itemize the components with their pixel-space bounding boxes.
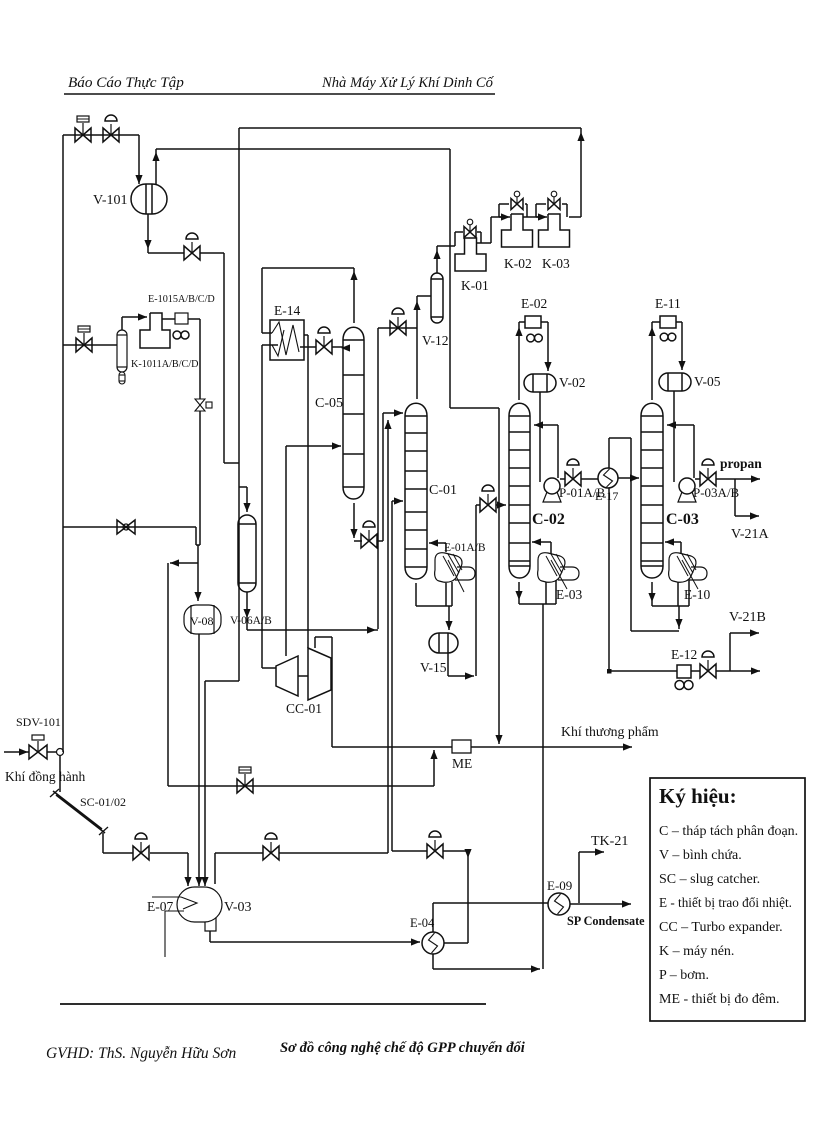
wire C-03 bottoms down to header bbox=[678, 606, 680, 629]
header underline bbox=[64, 93, 495, 95]
wire E-17 shell bottom to E-12 line bbox=[608, 488, 610, 671]
wire valve to C-02 bbox=[496, 504, 506, 506]
svg-text:K-03: K-03 bbox=[542, 256, 570, 271]
wire C-01 overhead branch valve line bbox=[378, 327, 417, 329]
svg-text:V-02: V-02 bbox=[559, 375, 586, 390]
wire V-06 bottoms bbox=[246, 592, 248, 630]
wire CC-01 compressor discharge to C-05 feed bbox=[285, 446, 287, 656]
wire SDV to main vertical bbox=[47, 751, 56, 753]
air cooler E-02 box bbox=[525, 316, 541, 328]
wire C-05 bottoms to riser x383 bbox=[377, 540, 383, 542]
wire inlet top header y135 bbox=[63, 134, 139, 136]
pump P-03A/B bbox=[679, 478, 695, 494]
wire down to slug catcher bbox=[59, 756, 61, 792]
heater E-07 coil in V-03 bbox=[181, 897, 197, 909]
column C-02 bbox=[509, 403, 530, 578]
svg-text:V – bình chứa.: V – bình chứa. bbox=[659, 848, 742, 863]
wire branch down x378 bbox=[377, 328, 379, 629]
wire C-05 overhead bbox=[353, 268, 355, 323]
compressor K-1011A/B/C/D bbox=[140, 313, 170, 348]
svg-text:Ký hiệu:: Ký hiệu: bbox=[659, 784, 737, 808]
vessel K-1011 suction scrubber bbox=[117, 330, 127, 372]
meter ME bbox=[452, 740, 471, 753]
wire C-03 bottoms bbox=[651, 582, 653, 606]
svg-text:SP Condensate: SP Condensate bbox=[567, 914, 645, 928]
wire down x450 bbox=[449, 149, 451, 408]
wire C-01 bottoms bbox=[415, 583, 417, 606]
wire propan product arrow bbox=[716, 478, 760, 480]
svg-text:SC – slug catcher.: SC – slug catcher. bbox=[659, 872, 760, 887]
svg-text:GVHD: ThS. Nguyễn Hữu Sơn: GVHD: ThS. Nguyễn Hữu Sơn bbox=[46, 1045, 236, 1062]
reboiler E-10 bbox=[669, 553, 696, 583]
wire C-05 bottoms bbox=[353, 503, 355, 538]
wire V-06 bottoms to x378 bbox=[247, 629, 378, 631]
wire E-14 right outlet to valve bbox=[300, 346, 316, 348]
svg-text:C-02: C-02 bbox=[532, 511, 565, 528]
valve top-left control bbox=[103, 128, 111, 142]
svg-text:C-03: C-03 bbox=[666, 511, 699, 528]
wire riser x392 to C-01 side feed bbox=[391, 501, 393, 851]
wire line A y786 bbox=[168, 785, 434, 787]
column C-05 bbox=[343, 327, 364, 499]
turbo expander CC-01 compressor side bbox=[276, 656, 298, 696]
valve line A gate with bar bbox=[237, 779, 245, 793]
wire x239 to x205 bbox=[205, 680, 239, 682]
wire main left vertical x63 bbox=[62, 135, 64, 752]
svg-text:Sơ đồ công nghệ chế độ GPP chu: Sơ đồ công nghệ chế độ GPP chuyển đổi bbox=[280, 1040, 525, 1056]
wire C-02 lower reflux return bbox=[532, 541, 551, 543]
wire E-11 to V-05 bbox=[676, 321, 682, 323]
wire jog to discharge line bbox=[195, 527, 197, 545]
wire x450 jog to x499 bbox=[450, 407, 499, 409]
heat exchanger E-17 bbox=[598, 468, 618, 488]
svg-text:Khí đồng hành: Khí đồng hành bbox=[5, 769, 85, 784]
svg-text:V-12: V-12 bbox=[422, 333, 449, 348]
compressor K-02 bbox=[502, 214, 533, 247]
wire E-02 to V-02 bbox=[541, 321, 548, 323]
svg-text:E-17: E-17 bbox=[595, 489, 618, 503]
wire down x499 to sales gas line bbox=[498, 408, 500, 744]
wire K-1011 suction y345 bbox=[63, 344, 117, 346]
wire V-101 bottoms bbox=[147, 214, 149, 253]
vessel V-101 bbox=[131, 184, 167, 214]
wire V-02 bottoms to P-01 bbox=[539, 392, 541, 482]
svg-text:E-02: E-02 bbox=[521, 296, 547, 311]
wire SC outlet to valve bbox=[103, 852, 133, 854]
wire K-03 discharge bbox=[569, 216, 581, 218]
wire riser x477 to C-02 feed valve bbox=[475, 505, 477, 676]
valve E-04 feed control bbox=[427, 844, 435, 858]
wire V-08 bottoms to V-03 bbox=[198, 634, 200, 886]
svg-text:Nhà Máy Xử Lý Khí Dinh Cố: Nhà Máy Xử Lý Khí Dinh Cố bbox=[321, 75, 495, 91]
heat exchanger E-04 bbox=[422, 932, 444, 954]
valve E-14 to C-05 control bbox=[316, 340, 324, 354]
node circle after SDV-101 bbox=[57, 749, 64, 756]
svg-text:V-15: V-15 bbox=[420, 660, 447, 675]
wire C-02 bottoms bbox=[518, 582, 520, 604]
wire expander outlet to ME line bbox=[314, 637, 316, 648]
CC-01 shaft bbox=[298, 675, 308, 677]
K-02 recycle loop bbox=[499, 216, 502, 218]
svg-text:E-11: E-11 bbox=[655, 296, 681, 311]
air cooler E-12 box bbox=[677, 665, 691, 678]
wire branch to sales line x168 bbox=[170, 562, 198, 564]
wire C-03 reflux bbox=[693, 425, 695, 478]
wire E-17 shell top loop bbox=[608, 438, 610, 468]
svg-text:E-03: E-03 bbox=[556, 587, 582, 602]
wire SC outlet down bbox=[102, 833, 104, 853]
legend box Ky hieu bbox=[650, 778, 805, 1021]
air cooler E-12 fan bbox=[675, 681, 684, 690]
footer rule bbox=[60, 1003, 486, 1005]
wire sales gas line bbox=[332, 746, 632, 748]
E-01 legs bbox=[445, 583, 447, 606]
reboiler E-01A/B bbox=[435, 553, 462, 583]
svg-text:CC-01: CC-01 bbox=[286, 701, 322, 716]
wire E-12 to valve bbox=[691, 670, 700, 672]
svg-text:E-14: E-14 bbox=[274, 303, 300, 318]
svg-text:ME - thiết bị đo đêm.: ME - thiết bị đo đêm. bbox=[659, 992, 780, 1007]
wire E-04 top to E-09 bbox=[432, 903, 434, 932]
wire P-03 discharge bbox=[695, 478, 700, 480]
wire jog x224 to x239 bbox=[224, 462, 239, 464]
valve SC outlet control bbox=[133, 846, 141, 860]
vessel V-15 bbox=[429, 633, 458, 653]
column C-03 bbox=[641, 403, 663, 578]
wire to E-17 bbox=[581, 478, 598, 480]
wire V-03 bottoms to E-04 bbox=[209, 931, 211, 942]
column C-01 bbox=[405, 403, 427, 579]
wire x198 into V-08 bbox=[197, 563, 199, 601]
wire V-05 bottoms to P-03 bbox=[673, 391, 675, 482]
wire top recycle header y128 bbox=[239, 127, 581, 129]
valve K-1011 suction gate with bar bbox=[76, 338, 84, 352]
svg-text:E-10: E-10 bbox=[684, 587, 710, 602]
wire valve to riser x388 bbox=[279, 852, 388, 854]
svg-text:K-01: K-01 bbox=[461, 278, 489, 293]
svg-text:E-09: E-09 bbox=[547, 878, 572, 893]
wire down x205 into V-03 bbox=[204, 681, 206, 886]
valve V-101 bottoms control bbox=[184, 246, 192, 260]
wire into V-101 top bbox=[138, 135, 140, 184]
svg-text:V-03: V-03 bbox=[224, 900, 252, 915]
svg-text:SC-01/02: SC-01/02 bbox=[80, 795, 126, 809]
valve C-05 bottoms control bbox=[361, 534, 369, 548]
svg-text:E - thiết bị trao đổi nhiệt.: E - thiết bị trao đổi nhiệt. bbox=[659, 895, 792, 910]
wire line A riser to ME line bbox=[433, 750, 435, 786]
svg-text:CC – Turbo expander.: CC – Turbo expander. bbox=[659, 920, 783, 935]
wire to V-03 inlet bbox=[150, 852, 188, 854]
pump P-01A/B bbox=[544, 478, 560, 494]
heat exchanger E-14 bbox=[270, 320, 304, 360]
wire C-01 overhead to V-12 bbox=[417, 295, 431, 297]
wire C-02 overhead to E-02 bbox=[518, 322, 520, 400]
svg-text:E-12: E-12 bbox=[671, 647, 697, 662]
wire V-101 overhead riser bbox=[155, 149, 157, 184]
svg-text:V-05: V-05 bbox=[694, 374, 721, 389]
E-03 legs bbox=[545, 582, 547, 604]
svg-text:Báo Cáo Thực Tập: Báo Cáo Thực Tập bbox=[68, 74, 184, 91]
wire x392 riser lower valve bbox=[392, 850, 427, 852]
wire K-02 to K-03 bbox=[523, 216, 547, 218]
vessel V-06A/B bbox=[238, 515, 256, 592]
svg-text:K – máy nén.: K – máy nén. bbox=[659, 944, 734, 959]
wire inlet khi dong hanh bbox=[4, 751, 29, 753]
wire x631 down to C-03 bottoms line bbox=[630, 438, 632, 631]
reboiler E-03 bbox=[538, 553, 565, 583]
svg-text:SDV-101: SDV-101 bbox=[16, 715, 61, 729]
svg-text:V-08: V-08 bbox=[190, 614, 214, 628]
svg-text:C-01: C-01 bbox=[429, 483, 457, 498]
wire valve to E-04 down x468 bbox=[443, 850, 468, 852]
valve E-12 outlet control bbox=[700, 664, 708, 678]
svg-text:V-21B: V-21B bbox=[729, 610, 766, 625]
svg-text:K-1011A/B/C/D: K-1011A/B/C/D bbox=[131, 359, 199, 370]
wire V-06 feed bbox=[239, 486, 247, 488]
air cooler E-02 fan bbox=[527, 334, 535, 342]
valve SDV-101 bbox=[29, 745, 38, 759]
wire P-01 discharge bbox=[560, 478, 565, 480]
svg-text:P – bơm.: P – bơm. bbox=[659, 968, 709, 983]
svg-text:propan: propan bbox=[720, 456, 762, 471]
wire C-02 bottoms long down x543 bbox=[542, 604, 544, 969]
svg-text:C – tháp tách phân đoạn.: C – tháp tách phân đoạn. bbox=[659, 824, 798, 839]
slug catcher SC-01/02 bbox=[53, 791, 102, 829]
wire C-03 bottoms header to x631 bbox=[631, 630, 679, 632]
svg-text:P-03A/B: P-03A/B bbox=[693, 485, 740, 500]
air cooler E-11 fan bbox=[660, 333, 668, 341]
wire C-03 lower reflux return bbox=[665, 541, 681, 543]
heat exchanger E-09 bbox=[548, 893, 570, 915]
wire K-03 discharge riser x581 bbox=[580, 128, 582, 217]
wire C-03 overhead to E-11 bbox=[651, 322, 653, 400]
wire V-101 bottoms to x224 bbox=[200, 252, 224, 254]
wire V-21A branch bbox=[734, 479, 736, 516]
wire V-101 overhead to x450 bbox=[156, 148, 450, 150]
wire V-12 overhead bbox=[436, 246, 438, 273]
compressor K-03 bbox=[539, 214, 570, 247]
air cooler E-11 box bbox=[660, 316, 676, 328]
svg-text:ME: ME bbox=[452, 756, 472, 771]
vessel V-03 bbox=[177, 887, 222, 922]
vessel V-12 bbox=[431, 273, 443, 323]
wire E-12 product arrow bbox=[716, 670, 760, 672]
svg-text:C-05: C-05 bbox=[315, 396, 343, 411]
air cooler E-1015 box bbox=[162, 318, 175, 320]
vessel V-08 bbox=[184, 605, 221, 634]
wire E-14 hot out down x308 to expander bbox=[307, 335, 309, 648]
svg-text:E-04: E-04 bbox=[410, 916, 435, 930]
vessel V-05 bbox=[659, 373, 691, 391]
wire E-14 left stub top bbox=[262, 332, 272, 334]
wire K-01 discharge bbox=[477, 242, 491, 244]
compressor K-01 bbox=[455, 238, 486, 271]
wire E-14 left stub bottom bbox=[262, 344, 278, 346]
valve V-03 vapor control bbox=[263, 846, 271, 860]
wire E-17 to C-03 feed bbox=[618, 477, 639, 479]
vessel V-02 bbox=[524, 374, 556, 392]
wire C-01 top feed bbox=[383, 412, 403, 414]
K-03 recycle loop bbox=[536, 216, 541, 218]
wire scrubber overhead bbox=[121, 317, 123, 330]
svg-text:E-07: E-07 bbox=[147, 899, 173, 914]
wire left valve line y527 bbox=[63, 526, 196, 528]
wire E-14 cold out down x262 bbox=[261, 345, 263, 668]
wire E-14 right stub to expander line bbox=[304, 334, 308, 336]
svg-text:Khí thương phẩm: Khí thương phẩm bbox=[561, 724, 659, 739]
turbo expander CC-01 expander side bbox=[308, 648, 331, 700]
wire E-04 bottom outlet bbox=[432, 954, 434, 969]
wire C-02 reflux bbox=[557, 425, 559, 478]
wire E-04 right stub bbox=[444, 942, 468, 944]
wire C-01 upper return bbox=[429, 542, 446, 544]
valve top-left gate with bar bbox=[75, 128, 83, 142]
wire V-15 outlet bbox=[447, 653, 449, 676]
air cooler E-1015 fan bbox=[173, 331, 181, 339]
wire C-01 overhead riser bbox=[416, 296, 418, 399]
svg-text:V-21A: V-21A bbox=[731, 527, 769, 542]
wire x200 down to branch bbox=[199, 411, 201, 545]
svg-text:TK-21: TK-21 bbox=[591, 834, 628, 849]
wire E-12 line bbox=[609, 670, 677, 672]
wire E-1015 discharge bbox=[188, 318, 200, 320]
wire riser x388 joining C-01 feed bbox=[387, 420, 389, 853]
wire TK-21 branch bbox=[578, 852, 580, 903]
wire V-21B branch bbox=[729, 633, 731, 671]
valve propan control bbox=[700, 472, 708, 486]
wire down x239 long bbox=[238, 128, 240, 681]
wire E-01 to V-15 bbox=[448, 606, 450, 630]
svg-text:E-01A/B: E-01A/B bbox=[444, 542, 486, 554]
wire SP condensate bbox=[570, 903, 631, 905]
svg-text:K-02: K-02 bbox=[504, 256, 532, 271]
E-10 legs bbox=[677, 582, 679, 606]
valve C-02 feed control bbox=[480, 498, 488, 512]
svg-text:V-06A/B: V-06A/B bbox=[230, 615, 272, 627]
K-01 recycle loop bbox=[454, 232, 456, 246]
valve mid-left ball bbox=[117, 520, 126, 534]
valve small vertical on x200 bbox=[195, 399, 205, 405]
wire V-03 vapor line bbox=[214, 853, 216, 884]
valve C-01 overhead control bbox=[390, 321, 398, 335]
valve P-01 discharge control bbox=[565, 472, 573, 486]
wire valve to C-05 bbox=[332, 346, 343, 348]
svg-text:V-101: V-101 bbox=[93, 193, 128, 208]
svg-text:E-1015A/B/C/D: E-1015A/B/C/D bbox=[148, 294, 215, 305]
